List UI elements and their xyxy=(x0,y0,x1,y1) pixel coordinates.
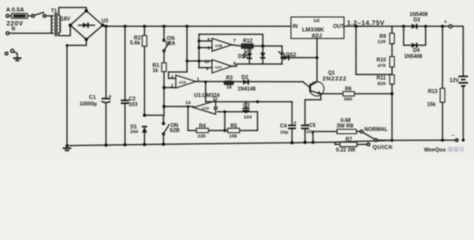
capacitor C3 loop xyxy=(206,101,292,103)
svg-text:QUICK: QUICK xyxy=(373,145,394,151)
node divider tap xyxy=(186,60,189,63)
wire U1B output xyxy=(232,45,242,46)
wire to battery top xyxy=(452,26,463,76)
node U1A out xyxy=(204,80,207,83)
capacitor C1 xyxy=(105,26,107,98)
op-amp U1B xyxy=(212,38,232,51)
capacitor C2 xyxy=(124,26,126,100)
svg-text:R5: R5 xyxy=(231,123,238,129)
svg-text:R6: R6 xyxy=(345,86,352,92)
svg-text:9: 9 xyxy=(206,66,209,71)
svg-text:1N4148: 1N4148 xyxy=(238,86,256,92)
svg-text:+: + xyxy=(444,20,447,26)
earth terminal xyxy=(5,52,8,55)
wire R4 R5 row xyxy=(188,107,258,131)
wire sense drop xyxy=(356,26,392,74)
LED DS1 xyxy=(249,48,251,53)
svg-text:DS2: DS2 xyxy=(286,53,296,59)
svg-text:13: 13 xyxy=(213,105,219,110)
svg-text:NORMAL: NORMAL xyxy=(365,127,389,133)
svg-text:WeeQoo: WeeQoo xyxy=(424,148,446,154)
switch S1 xyxy=(32,15,35,18)
node D1 bottom xyxy=(143,143,146,146)
bridge rectifier U3 xyxy=(70,11,102,40)
wire top rail xyxy=(103,25,291,26)
op-amp U1D (points left) xyxy=(194,101,216,115)
node xyxy=(354,25,357,28)
svg-text:R11: R11 xyxy=(377,75,386,81)
node xyxy=(187,105,190,108)
svg-text:T1: T1 xyxy=(51,9,57,15)
svg-text:D3: D3 xyxy=(414,17,421,23)
node R6 join xyxy=(390,92,393,95)
fuse F1 xyxy=(12,14,28,19)
svg-text:S2B: S2B xyxy=(170,128,180,134)
svg-text:18V: 18V xyxy=(61,17,71,23)
svg-text:+: + xyxy=(109,94,112,100)
svg-text:C3: C3 xyxy=(243,103,250,109)
svg-text:820: 820 xyxy=(378,81,386,87)
svg-text:R7: R7 xyxy=(346,137,353,143)
wire negative rail xyxy=(392,139,458,141)
node xyxy=(162,86,165,89)
svg-text:R10: R10 xyxy=(377,57,387,63)
svg-text:2N2222: 2N2222 xyxy=(323,76,347,82)
switch S3 NORMAL contact xyxy=(360,130,363,133)
wire feedback top xyxy=(199,34,263,46)
terminal A xyxy=(6,14,9,17)
svg-text:R9: R9 xyxy=(380,34,387,40)
terminal N xyxy=(6,32,9,35)
node xyxy=(162,105,165,108)
svg-text:–: – xyxy=(452,133,455,139)
wire secondary top to bridge xyxy=(59,8,87,16)
svg-text:12: 12 xyxy=(213,96,219,101)
node xyxy=(261,44,264,47)
wire U1A pin2 feed xyxy=(164,87,176,89)
node xyxy=(143,114,146,117)
wire U1A output xyxy=(196,81,303,83)
svg-text:15k: 15k xyxy=(427,102,436,108)
resistor R3 xyxy=(224,81,234,85)
resistor R4 xyxy=(196,128,208,132)
node bridge right vertex xyxy=(101,24,104,27)
diode D1 xyxy=(142,126,147,128)
node pin6 tap xyxy=(198,40,201,43)
node C4 bottom xyxy=(290,141,293,144)
svg-text:U1B: U1B xyxy=(215,44,223,48)
switch S3 common xyxy=(374,139,377,142)
wire ADJ xyxy=(316,39,318,82)
node C5 bottom xyxy=(303,141,306,144)
svg-text:103: 103 xyxy=(244,115,252,121)
op-amp U1C xyxy=(212,60,232,73)
svg-text:A 0.5A: A 0.5A xyxy=(6,7,25,13)
node bridge top vertex xyxy=(85,9,88,12)
node S2B bottom xyxy=(162,143,165,146)
svg-text:U1C: U1C xyxy=(215,65,223,69)
wire right branch xyxy=(281,46,283,64)
resistor R7 branch xyxy=(335,142,340,144)
svg-text:10: 10 xyxy=(204,59,210,64)
wire emitter node xyxy=(305,94,321,100)
wire to S2B xyxy=(145,115,164,122)
svg-text:D2: D2 xyxy=(242,75,249,81)
svg-text:N: N xyxy=(12,27,16,33)
node xyxy=(441,25,444,28)
svg-text:22k: 22k xyxy=(198,133,206,139)
node C2 bottom xyxy=(123,143,126,146)
wire secondary bottom to bridge left xyxy=(59,25,71,35)
switch S2A xyxy=(163,26,165,39)
svg-text:10µ: 10µ xyxy=(280,130,288,136)
svg-text:OUT: OUT xyxy=(333,24,345,30)
node divider top xyxy=(185,25,188,28)
LED DS2 xyxy=(282,57,284,59)
resistor R2 xyxy=(144,26,146,35)
wire xyxy=(253,45,282,47)
svg-text:1N5408: 1N5408 xyxy=(404,54,422,60)
resistor R11 xyxy=(390,75,395,84)
node C2 top xyxy=(123,25,126,28)
resistor R8 branch xyxy=(313,132,337,143)
svg-text:DS1: DS1 xyxy=(238,54,248,60)
svg-text:U1A: U1A xyxy=(179,81,187,85)
node pin10 tap xyxy=(198,60,201,63)
svg-text:120: 120 xyxy=(378,39,386,45)
resistor R12 xyxy=(242,44,254,48)
transistor Q1 xyxy=(310,82,324,96)
wire ground drop xyxy=(66,45,68,145)
node bridge bottom vertex xyxy=(85,38,88,41)
svg-text:470: 470 xyxy=(378,63,386,69)
svg-text:R4: R4 xyxy=(199,123,206,129)
svg-text:C4: C4 xyxy=(280,124,287,130)
wire bottom ground rail xyxy=(67,140,392,145)
svg-text:2: 2 xyxy=(171,83,174,88)
op-amp U1A xyxy=(176,75,196,88)
node and drop to R4/R5 xyxy=(223,110,226,113)
wire mid vertical to U1A pin3 xyxy=(169,26,188,78)
svg-text:S2A: S2A xyxy=(165,41,175,47)
svg-text:3: 3 xyxy=(171,75,174,80)
svg-text:3W R8: 3W R8 xyxy=(337,123,354,129)
resistor R13 xyxy=(442,26,444,88)
svg-text:103: 103 xyxy=(129,102,138,108)
resistor R1 xyxy=(163,52,165,63)
resistor R9 xyxy=(391,26,393,33)
svg-text:R12: R12 xyxy=(243,39,253,45)
node R8 riser xyxy=(311,141,314,144)
node xyxy=(391,139,394,142)
switch S3 QUICK contact xyxy=(367,143,370,146)
wire input bus xyxy=(198,34,200,67)
switch S2B xyxy=(162,122,165,125)
svg-text:U1D: U1D xyxy=(202,107,210,111)
svg-text:+: + xyxy=(294,120,297,126)
wire xyxy=(9,15,11,17)
svg-text:1k: 1k xyxy=(153,68,159,74)
wire xyxy=(28,15,32,17)
svg-text:1.2–14.75V: 1.2–14.75V xyxy=(347,20,385,27)
svg-text:560: 560 xyxy=(344,97,352,103)
ground xyxy=(66,144,69,147)
wire bottom of LEDs xyxy=(232,64,282,66)
diode D2 xyxy=(243,79,248,84)
svg-text:8: 8 xyxy=(233,61,236,66)
svg-text:15k: 15k xyxy=(229,133,237,139)
svg-text:R13: R13 xyxy=(428,89,438,95)
resistor R6 xyxy=(343,92,354,96)
svg-text:IN: IN xyxy=(293,24,298,30)
svg-text:5.6k: 5.6k xyxy=(130,41,140,47)
node pin5 tap xyxy=(198,46,201,49)
wire to U1D pin12 xyxy=(205,82,207,102)
svg-text:U2: U2 xyxy=(314,18,321,24)
svg-text:1k: 1k xyxy=(227,85,233,91)
svg-text:1: 1 xyxy=(197,76,200,81)
node S2A top xyxy=(162,25,165,28)
node C1 top xyxy=(104,25,107,28)
svg-text:7: 7 xyxy=(233,38,236,43)
wire xyxy=(9,32,53,34)
resistor R10 xyxy=(390,57,395,67)
ground xyxy=(13,57,21,59)
svg-text:14: 14 xyxy=(185,100,191,105)
capacitor C4 xyxy=(291,102,293,126)
wire bridge minus down xyxy=(67,39,86,45)
svg-text:10000µ: 10000µ xyxy=(80,101,97,107)
wire xyxy=(46,15,53,17)
wire output rail xyxy=(344,25,449,27)
capacitor C5 xyxy=(304,100,306,125)
diode D4 xyxy=(404,26,426,45)
node R2 top xyxy=(143,25,146,28)
svg-text:+C5: +C5 xyxy=(306,123,316,129)
svg-text:1N4: 1N4 xyxy=(130,129,139,134)
svg-text:C1: C1 xyxy=(89,95,96,101)
node C1 bottom xyxy=(104,144,107,147)
wire U1D pin14 output xyxy=(164,106,194,108)
svg-text:12V: 12V xyxy=(450,78,460,84)
svg-text:U3: U3 xyxy=(102,18,109,24)
node bridge left vertex xyxy=(69,24,72,27)
svg-text:R3: R3 xyxy=(226,76,233,82)
svg-text:0.22 3W: 0.22 3W xyxy=(336,148,355,154)
regulator U2 LM338K xyxy=(291,17,344,39)
zener D5 xyxy=(260,53,265,58)
resistor R5 xyxy=(228,128,240,132)
